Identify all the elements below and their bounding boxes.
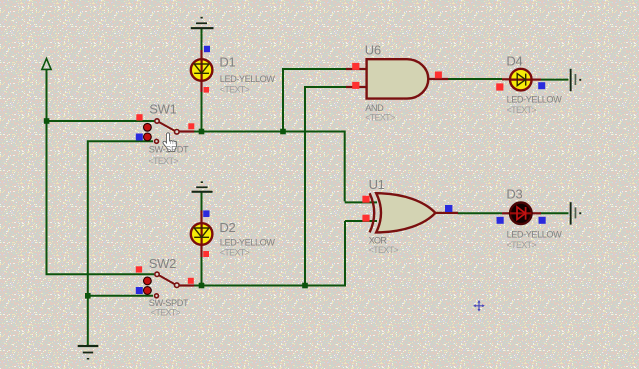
svg-text:LED-YELLOW: LED-YELLOW [220,74,276,84]
svg-text:SW2: SW2 [149,256,176,271]
svg-text:<TEXT>: <TEXT> [507,105,537,115]
svg-text:<TEXT>: <TEXT> [365,112,395,122]
svg-text:LED-YELLOW: LED-YELLOW [507,230,563,240]
svg-text:<TEXT>: <TEXT> [151,307,181,317]
svg-text:U6: U6 [365,42,381,57]
svg-text:<TEXT>: <TEXT> [220,248,250,258]
svg-text:D2: D2 [219,220,235,235]
svg-text:SW-SPDT: SW-SPDT [149,298,189,308]
svg-text:<TEXT>: <TEXT> [507,240,537,250]
svg-text:XOR: XOR [369,236,388,246]
svg-text:<TEXT>: <TEXT> [220,84,250,94]
svg-text:SW-SPDT: SW-SPDT [149,144,189,154]
svg-text:SW1: SW1 [149,101,176,116]
svg-text:LED-YELLOW: LED-YELLOW [220,237,276,247]
svg-text:D3: D3 [506,187,522,202]
svg-text:U1: U1 [369,177,385,192]
svg-text:<TEXT>: <TEXT> [369,245,399,255]
svg-text:LED-YELLOW: LED-YELLOW [507,95,563,105]
svg-text:<TEXT>: <TEXT> [149,156,179,166]
svg-text:AND: AND [365,103,384,113]
svg-text:D4: D4 [506,54,522,69]
svg-text:D1: D1 [219,55,235,70]
